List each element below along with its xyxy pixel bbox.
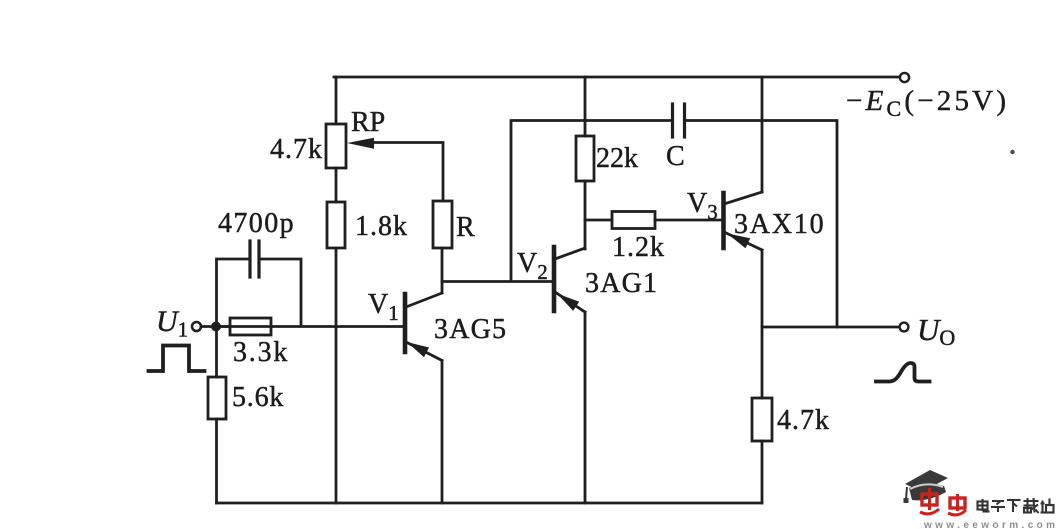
svg-text:3AG5: 3AG5: [434, 314, 507, 345]
wire 4.7k to bottom rail: [761, 441, 764, 503]
transistor V2 emitter lead: [555, 292, 585, 312]
wire V3 collector drop from rail: [761, 77, 764, 192]
resistor 1.2k body: [612, 212, 655, 229]
capacitor 4700p loop right: [260, 259, 301, 325]
resistor 22k body: [576, 136, 594, 181]
svg-text:5.6k: 5.6k: [232, 382, 284, 413]
resistor 5.6k top wire: [215, 328, 218, 377]
transistor V3 emitter arrow: [727, 233, 750, 248]
wire V2 emitter to bottom rail: [584, 312, 587, 503]
watermark graduation cap: [904, 470, 949, 503]
wire R bottom to V1 collector junction: [441, 248, 444, 293]
wire RP wiper to R: [371, 143, 443, 202]
wire top supply rail -Ec: [334, 76, 899, 79]
watermark red chong 2: [948, 494, 966, 515]
svg-text:1.8k: 1.8k: [355, 211, 408, 242]
capacitor 4700p left plate: [248, 241, 251, 277]
wire 22k to V2 collector: [584, 181, 587, 249]
resistor 1.8k body: [327, 202, 345, 248]
input terminal U1: [192, 322, 201, 331]
wire 1.2k right to V3 base: [655, 219, 721, 222]
transistor V2 collector lead: [555, 248, 585, 259]
svg-text:RP: RP: [351, 107, 385, 138]
wire bottom rail: [217, 502, 763, 505]
svg-text:C: C: [666, 141, 685, 172]
svg-text:3.3k: 3.3k: [233, 337, 289, 368]
svg-text:1.2k: 1.2k: [612, 232, 665, 263]
watermark red chong 1: [920, 488, 939, 514]
wire 22k chain top drop: [584, 77, 587, 136]
svg-text:3AG1: 3AG1: [585, 268, 658, 299]
capacitor 4700p loop left: [217, 259, 250, 325]
potentiometer RP body: [326, 124, 346, 168]
waveform input pulse: [149, 346, 205, 372]
terminal Uo: [900, 323, 909, 332]
node input junction dot: [211, 322, 221, 332]
wire V1 emitter to bottom rail: [441, 361, 444, 504]
watermark text dianzi xiazaizhan: [978, 498, 1054, 513]
transistor V3 base bar: [721, 193, 726, 248]
wire feedback rail left segment: [511, 121, 671, 282]
capacitor 4700p right plate: [257, 241, 260, 277]
wire output to terminal: [762, 326, 899, 329]
wire feedback rail right segment: [686, 121, 837, 328]
wire V2 base: [442, 280, 552, 283]
svg-text:4.7k: 4.7k: [270, 134, 323, 165]
transistor V1 collector lead: [406, 293, 442, 307]
resistor R body: [433, 201, 452, 248]
capacitor C right plate: [683, 104, 686, 137]
wire V1 base from input: [217, 325, 404, 328]
svg-text:R: R: [456, 212, 475, 243]
resistor 3.3k body: [230, 318, 271, 335]
wire 5.6k to bottom rail: [215, 419, 218, 503]
transistor V1 base bar: [403, 294, 408, 352]
wire V3 emitter down to output node: [761, 250, 764, 398]
transistor V1 emitter arrow: [407, 342, 429, 357]
transistor V3 emitter lead: [724, 232, 762, 250]
wire 1.2k left: [585, 219, 612, 222]
svg-text:4.7k: 4.7k: [777, 405, 830, 436]
transistor V2 emitter arrow: [557, 294, 579, 311]
transistor V2 base bar: [552, 247, 557, 311]
capacitor C left plate: [671, 104, 674, 137]
resistor 4.7k output body: [752, 398, 772, 441]
wire 1.8k to bottom rail: [335, 248, 338, 503]
wire RP chain top drop: [335, 77, 338, 124]
transistor V3 collector lead: [724, 192, 762, 204]
potentiometer RP wiper arrow: [347, 138, 374, 149]
wire input to 3.3k: [201, 325, 230, 328]
resistor 5.6k body: [208, 377, 226, 419]
svg-text:4700p: 4700p: [218, 208, 295, 239]
svg-text:www.eeworm.com: www.eeworm.com: [923, 520, 1057, 529]
svg-text:22k: 22k: [596, 143, 638, 174]
terminal -Ec: [900, 73, 909, 82]
svg-text:3AX10: 3AX10: [734, 209, 825, 240]
transistor V1 emitter lead: [406, 342, 442, 361]
scan speck: [1010, 150, 1014, 154]
wire RP to 1.8k: [335, 168, 338, 202]
waveform output hump: [876, 363, 930, 382]
svg-text:−EC(−25V): −EC(−25V): [846, 85, 1009, 121]
